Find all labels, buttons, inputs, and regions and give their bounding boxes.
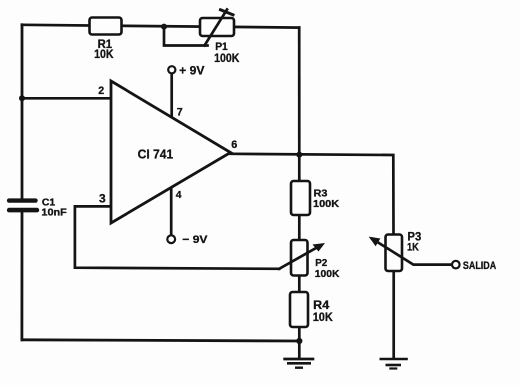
svg-text:CI 741: CI 741 bbox=[138, 147, 174, 162]
svg-text:7: 7 bbox=[177, 107, 183, 119]
svg-text:100K: 100K bbox=[214, 51, 240, 65]
svg-text:10K: 10K bbox=[313, 310, 333, 324]
svg-text:3: 3 bbox=[99, 191, 106, 205]
svg-text:− 9V: − 9V bbox=[182, 234, 208, 246]
svg-text:4: 4 bbox=[176, 190, 182, 201]
svg-text:6: 6 bbox=[231, 139, 237, 151]
svg-text:+ 9V: + 9V bbox=[179, 64, 205, 77]
svg-text:100K: 100K bbox=[315, 269, 340, 280]
svg-text:P2: P2 bbox=[315, 258, 327, 269]
svg-text:100K: 100K bbox=[313, 199, 340, 210]
svg-text:SALIDA: SALIDA bbox=[463, 260, 496, 272]
svg-text:10K: 10K bbox=[94, 47, 114, 61]
svg-text:R3: R3 bbox=[314, 189, 328, 200]
svg-text:1K: 1K bbox=[407, 241, 419, 253]
svg-text:2: 2 bbox=[98, 85, 104, 97]
svg-text:10nF: 10nF bbox=[41, 208, 66, 219]
